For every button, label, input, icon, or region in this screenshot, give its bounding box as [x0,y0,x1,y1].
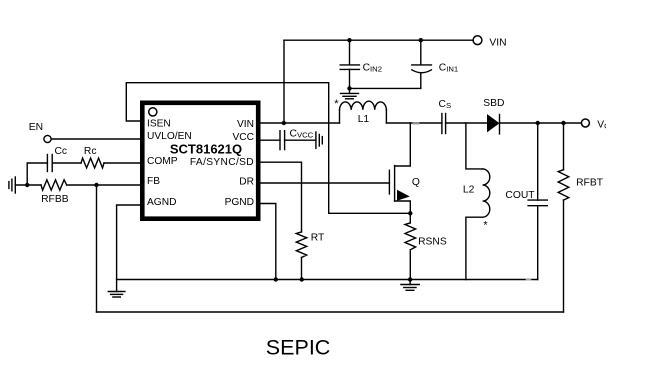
svg-text:CS: CS [439,99,452,110]
resistor RT [296,232,306,258]
svg-text:*: * [483,219,488,231]
svg-text:DR: DR [239,177,254,188]
node junction VIN drop [282,121,286,125]
capacitor Cc [47,155,52,172]
ground (sideways) at Cvcc [316,132,322,148]
capacitor Cs [442,114,446,134]
svg-text:RFBB: RFBB [41,194,69,205]
resistor RFBT [558,170,569,200]
svg-text:L2: L2 [463,185,475,196]
wire RT bottom to ground rail [301,258,303,280]
svg-text:CIN2: CIN2 [363,63,382,74]
ground AGND [108,292,125,298]
wire EN to UVLO/EN pin [51,138,142,140]
terminal VO [581,119,589,127]
diode SBD (schottky) [487,114,500,134]
wire L2 bottom to ground rail [466,217,483,279]
wire VIN terminal drop [283,40,285,123]
node junction PGND/ground rail [274,277,278,281]
wire FB node down to feedback rail [96,185,98,312]
inductor L2 [483,169,490,217]
svg-text:EN: EN [29,122,43,133]
wire VCC pin to Cvcc [259,139,280,141]
capacitor Cvcc [280,131,285,150]
gray artifact on rail [413,122,420,124]
svg-text:Cc: Cc [55,146,68,157]
node junction MOSFET source / ISEN / RSNS [408,211,412,215]
resistor Rc [81,158,104,168]
wire CIN2 top lead [349,40,351,64]
wire COUT top lead [537,123,539,200]
wire mid rail CIN2 to CIN1 [350,74,421,89]
wire RFBT top lead [563,123,565,170]
node junction RSNS/ground rail [408,277,412,281]
svg-text:FB: FB [147,176,160,187]
svg-text:FA/SYNC/SD: FA/SYNC/SD [190,157,254,168]
svg-text:CVCC: CVCC [290,128,314,139]
node junction CIN2 bottom / mid rail [347,86,351,90]
wire source node to RSNS [409,213,411,223]
transistor Q (N-MOSFET) [389,166,410,214]
wire FA/SYNC/SD pin to RT [259,162,302,232]
wire Cvcc to ground [285,139,316,141]
svg-text:ISEN: ISEN [147,118,171,129]
wire CIN1 top lead [420,40,422,64]
svg-text:SEPIC: SEPIC [266,336,331,360]
op-amp U1 SCT81621Q chip body [142,103,258,219]
wire feedback bottom rail [97,311,564,313]
wire PGND pin right and down to ground rail [259,204,276,280]
svg-text:Rc: Rc [84,146,97,157]
wire ground rail [117,279,538,281]
wire DR pin to gate [259,182,389,184]
svg-text:L1: L1 [358,114,370,125]
svg-text:SBD: SBD [483,98,504,109]
wire ground to node [15,184,41,186]
svg-text:RT: RT [311,233,325,244]
svg-text:CIN1: CIN1 [439,63,458,74]
ground (sideways) at FB row [9,177,15,193]
ground under CIN2 [341,88,359,98]
label VO (clipped) [597,119,610,130]
svg-text:RSNS: RSNS [418,237,447,248]
wire L2 branch from rail [466,123,483,169]
resistor RSNS [405,223,416,250]
svg-text:*: * [334,98,339,110]
svg-text:VIN: VIN [489,38,506,49]
svg-text:RFBT: RFBT [576,178,604,189]
node junction FB/feedback [94,183,98,187]
terminal EN [44,135,51,142]
node junction CIN1 top [419,38,423,42]
wire SBD cathode to VO terminal [500,122,582,124]
wire Cc left to corner down to FB row [27,163,47,185]
node junction RFBT tap [561,121,565,125]
wire RFBT bottom to feedback rail [563,200,565,312]
svg-text:VIN: VIN [237,119,254,130]
node junction CIN2 top [347,38,351,42]
wire rail L1 to Cs [386,122,442,124]
gray artifact on ground rail [526,279,532,281]
wire RSNS to ground rail [409,250,411,280]
wire Cs to SBD anode [446,122,487,124]
ground under RSNS [401,280,419,291]
wire RFBB to FB pin [67,184,142,186]
capacitor COUT [528,200,547,206]
capacitor CIN1 (polarized) [412,65,432,73]
wire AGND pin left and down [117,205,142,292]
svg-text:COUT: COUT [505,190,535,201]
wire MOSFET drain up to rail [395,123,411,166]
wire ISEN loop (ISEN pin up over chip, down right side, to MOSFET source) [126,83,410,214]
pin 1 marker circle [149,108,157,116]
wire VIN pin rail to L1 [259,122,340,124]
svg-text:AGND: AGND [147,197,176,208]
svg-text:COMP: COMP [147,156,178,167]
node junction Cc/ground/RFBB [25,183,29,187]
node junction RT/ground rail [300,277,304,281]
wire COUT bottom lead to ground rail [537,206,539,280]
node junction COUT tap [536,121,540,125]
resistor RFBB [41,180,67,190]
svg-text:Q: Q [412,177,420,188]
svg-text:SCT81621Q: SCT81621Q [170,141,242,156]
capacitor CIN2 [340,65,359,70]
inductor L1 [340,101,387,123]
terminal VIN [473,36,482,45]
wire top rail to VIN terminal [284,39,473,41]
wire Rc to Cc [52,162,81,164]
svg-text:VCC: VCC [232,132,254,143]
svg-text:PGND: PGND [225,197,254,208]
wire CIN2 bottom lead [349,69,351,88]
wire COMP pin to Rc [104,162,142,164]
